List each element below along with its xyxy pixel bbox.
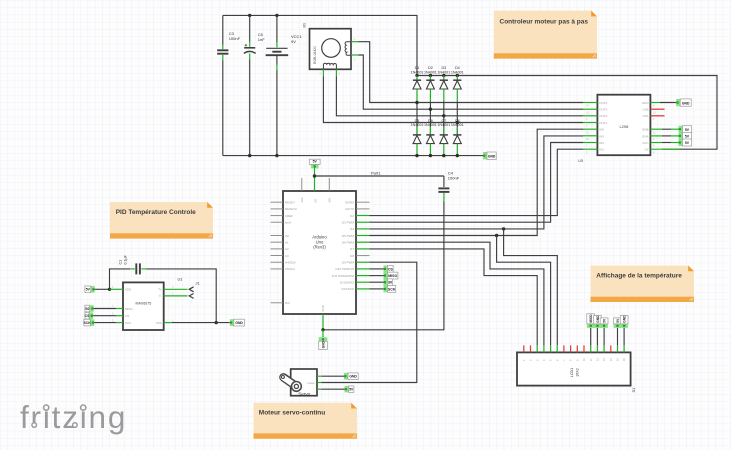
svg-text:1N4001: 1N4001 xyxy=(411,70,424,74)
junction diode column D7 on bottom rail xyxy=(442,154,445,157)
wire D4 net branch to LCD pin6 xyxy=(504,229,558,346)
svg-text:D10 PWM/SS: D10 PWM/SS xyxy=(335,267,354,271)
junction Arduino GND node xyxy=(321,328,324,331)
svg-text:pulse: pulse xyxy=(307,381,315,385)
svg-text:RESET: RESET xyxy=(285,201,295,205)
L298 VS pin green stub xyxy=(650,148,680,150)
wire C3 top lead xyxy=(222,15,224,44)
junction 5V node above Arduino xyxy=(313,174,316,177)
svg-text:Affichage de la température: Affichage de la température xyxy=(596,273,682,280)
wire Arduino GND pin down (green) xyxy=(322,314,324,330)
svg-text:T+: T+ xyxy=(158,288,162,292)
node 5V label at L298 ENA xyxy=(679,132,683,139)
diode D8 green stub bottom xyxy=(456,144,458,156)
svg-text:VIN: VIN xyxy=(328,198,332,203)
svg-text:5V: 5V xyxy=(685,128,690,132)
svg-text:CSA: CSA xyxy=(642,114,648,118)
stepper pin A green stub xyxy=(351,41,358,43)
microcontroller Part1 Arduino Uno body xyxy=(283,191,356,314)
wire diode column D3-D7 xyxy=(443,102,445,135)
MAX6675 SCK pin green stub xyxy=(116,322,123,324)
wire LCD pin11 to MISO label xyxy=(590,328,592,346)
wire servo 5V to label xyxy=(322,388,345,390)
node S0 label at Arduino D12 xyxy=(384,279,388,286)
svg-text:T-: T- xyxy=(159,294,162,298)
svg-text:U5: U5 xyxy=(578,158,584,163)
svg-text:LCD1: LCD1 xyxy=(570,368,574,377)
svg-text:ioref: ioref xyxy=(285,221,291,225)
wire CS label to CS pin xyxy=(93,315,116,317)
capacitor C3 green stub bottom xyxy=(222,55,224,61)
diode D5 green stub bottom xyxy=(416,144,418,156)
svg-text:D4: D4 xyxy=(350,227,354,231)
svg-text:IN1: IN1 xyxy=(599,148,604,152)
svg-text:GND: GND xyxy=(642,101,650,105)
svg-text:1N4001: 1N4001 xyxy=(424,70,437,74)
junction VCC1 top rail xyxy=(275,14,278,17)
wire 5V label to Arduino 5V pin (green) xyxy=(314,166,316,191)
svg-text:5V: 5V xyxy=(685,135,690,139)
wire C3 bottom lead xyxy=(222,61,224,156)
svg-text:VDD: VDD xyxy=(125,288,132,292)
svg-text:D8: D8 xyxy=(350,254,354,258)
svg-text:S1: S1 xyxy=(631,387,636,393)
diode D4 green stub bottom xyxy=(456,89,458,102)
stepper pin C green stub xyxy=(335,69,337,76)
wire C4 to GND junction xyxy=(323,202,444,330)
diode D1 1N4001 symbol xyxy=(413,79,421,81)
svg-text:A0: A0 xyxy=(285,234,289,238)
L298 CSB unconnected red stub xyxy=(650,108,664,110)
servo pulse pin green stub xyxy=(317,382,322,384)
servo 5V pin green stub xyxy=(317,388,322,390)
wire VDD node up to C1 xyxy=(110,269,131,289)
diode D2 1N4001 symbol xyxy=(426,79,434,81)
LCD 16 pins with pin numbers xyxy=(523,345,525,352)
MAX6675 VSS pin green stub xyxy=(164,322,172,324)
wire diode column D4-D8 xyxy=(456,102,458,135)
svg-text:3V3: 3V3 xyxy=(300,197,304,202)
L298 ENA wire green end xyxy=(671,135,679,137)
junction diode column D1 on OUT wire xyxy=(415,101,418,104)
diode D4 1N4001 symbol xyxy=(453,79,461,81)
wire C1 to GND node xyxy=(147,269,216,323)
L298 ENA pin green stub xyxy=(650,135,662,137)
svg-text:CSB: CSB xyxy=(642,108,648,112)
svg-text:9V: 9V xyxy=(291,39,296,44)
junction MAX6675 VSS / GND node xyxy=(215,321,218,324)
svg-text:0.1µF: 0.1µF xyxy=(123,254,127,264)
capacitor C5 green stub top xyxy=(249,42,251,47)
svg-text:C1: C1 xyxy=(119,260,123,265)
junction diode column D3 on top bus xyxy=(442,74,445,77)
svg-text:D9 PWM: D9 PWM xyxy=(342,261,355,265)
junction diode column D6 on bottom rail xyxy=(429,154,432,157)
node GND label above LCD pin12 xyxy=(594,324,602,328)
svg-text:1N4001: 1N4001 xyxy=(437,70,450,74)
svg-text:IN4: IN4 xyxy=(599,128,604,132)
wire C4 top lead xyxy=(443,176,445,187)
wire C5 top lead xyxy=(249,15,251,41)
svg-text:A4/SDA: A4/SDA xyxy=(285,261,296,265)
wire diode column D1-D5 xyxy=(416,102,418,135)
svg-text:1N4001: 1N4001 xyxy=(424,123,437,127)
svg-text:SCK: SCK xyxy=(84,321,92,325)
diode D6 green stub bottom xyxy=(429,144,431,156)
svg-text:GND: GND xyxy=(623,315,627,323)
diode D7 1N4001 symbol xyxy=(440,134,448,136)
svg-text:D5 PWM: D5 PWM xyxy=(342,234,355,238)
diode D6 green stub top xyxy=(429,127,431,135)
node GND label right of L298 xyxy=(676,99,680,106)
capacitor C3 plates xyxy=(217,49,228,51)
wire LCD pin15 to 5V label xyxy=(617,328,619,346)
wire Arduino D3 to L298 IN2 xyxy=(370,143,584,223)
junction C5 bottom rail xyxy=(248,154,251,157)
wire Arduino D12 to S0 label xyxy=(370,281,384,283)
svg-text:(Rev3): (Rev3) xyxy=(313,245,326,250)
junction diode column D2 on OUT wire xyxy=(429,108,432,111)
node 5V label at L298 VCC xyxy=(679,139,683,146)
svg-text:A5/SCL: A5/SCL xyxy=(285,267,296,271)
svg-text:GND: GND xyxy=(235,321,243,325)
L298 ENB pin green stub xyxy=(650,128,662,130)
junction diode column D4 on top bus xyxy=(456,74,459,77)
diode D3 1N4001 symbol xyxy=(440,79,448,81)
junction MAX6675 VDD / C1 node xyxy=(108,288,111,291)
wire Arduino D7 to LCD pin3 xyxy=(370,249,538,346)
MAX6675 VDD pin green stub xyxy=(110,288,124,290)
stepper motor M1 ROB-08420 body xyxy=(310,29,352,70)
svg-text:VS: VS xyxy=(644,148,648,152)
MAX6675 T+ wire green xyxy=(164,288,188,290)
Arduino left pins RESET RESET2 AREF ioref A0-A5 N/C xyxy=(271,201,284,203)
L298 VCC pin green stub xyxy=(650,142,662,144)
wire L298 ENA to 5V label xyxy=(662,135,671,137)
diode D3 green stub bottom xyxy=(443,89,445,102)
svg-text:D7: D7 xyxy=(350,247,354,251)
svg-text:GND: GND xyxy=(596,315,600,323)
wire 5V label to VDD junction xyxy=(95,288,110,290)
svg-text:1N4001: 1N4001 xyxy=(411,123,424,127)
wire L298 ENB to 5V label xyxy=(662,128,671,130)
svg-text:SCK: SCK xyxy=(388,287,396,291)
diode D2 green stub bottom xyxy=(429,89,431,102)
svg-text:GND: GND xyxy=(321,340,325,348)
note PID Temperature Controle xyxy=(110,202,213,239)
thermocouple J1 contacts xyxy=(189,287,193,292)
svg-text:MISO: MISO xyxy=(388,274,397,278)
svg-text:IN3: IN3 xyxy=(599,134,604,138)
svg-text:D13/SCK: D13/SCK xyxy=(341,287,354,291)
node 5V label above LCD pin15 xyxy=(614,324,622,328)
svg-text:A1: A1 xyxy=(285,241,289,245)
node 5V label at MAX6675 VDD xyxy=(91,286,95,293)
wire VSS to GND label xyxy=(172,322,230,324)
note Controleur moteur pas a pas xyxy=(494,11,597,59)
node 5V label at L298 ENB xyxy=(679,126,683,133)
node SCK label at Arduino D13 xyxy=(384,286,388,293)
wire L298 VCC to 5V label xyxy=(662,142,671,144)
junction C5 top rail xyxy=(248,14,251,17)
diode D7 green stub top xyxy=(443,127,445,135)
wire bottom GND rail xyxy=(223,155,484,157)
stepper pin D green stub xyxy=(322,69,324,76)
wire +9V diode top bus to L298 VS xyxy=(417,76,717,150)
svg-text:D11 PWM/MOSI: D11 PWM/MOSI xyxy=(332,274,354,278)
svg-text:GND: GND xyxy=(682,101,690,105)
junction diode column D3 on OUT wire xyxy=(442,114,445,117)
svg-text:OUT1: OUT1 xyxy=(599,121,607,125)
svg-text:D12/MISO: D12/MISO xyxy=(340,281,355,285)
svg-text:IN2: IN2 xyxy=(599,141,604,145)
note Moteur servo-continu xyxy=(254,403,358,439)
node GND label at MAX6675 VSS xyxy=(230,319,234,326)
diode D5 1N4001 symbol xyxy=(413,134,421,136)
wire Arduino D6 to LCD pin4 xyxy=(370,242,544,345)
svg-text:D3 PWM: D3 PWM xyxy=(342,221,355,225)
svg-text:100nF: 100nF xyxy=(448,175,460,180)
battery VCC1 9V symbol xyxy=(266,47,287,49)
wire S0 label to MISO pin xyxy=(94,308,116,310)
wire D5 net branch to LCD pin5 xyxy=(497,236,551,346)
svg-text:GND: GND xyxy=(488,155,496,159)
wire diode column D2-D6 xyxy=(429,102,431,135)
node GND label below Arduino (rotated) xyxy=(319,337,328,341)
svg-text:PID Température Controle: PID Température Controle xyxy=(116,209,196,216)
battery VCC1 green stub top xyxy=(276,42,278,47)
svg-text:VSS: VSS xyxy=(156,321,162,325)
node S0 label at MAX6675 MISO xyxy=(90,305,94,312)
svg-text:D1/TX: D1/TX xyxy=(345,207,354,211)
svg-text:D0/RX: D0/RX xyxy=(345,201,354,205)
wire Arduino D4 to L298 IN3 xyxy=(370,136,584,229)
stepper pin B green stub xyxy=(351,54,358,56)
junction VCC1 bottom rail xyxy=(275,154,278,157)
svg-text:MISO: MISO xyxy=(589,314,593,323)
wire servo GND to label xyxy=(322,375,345,377)
node CS label at MAX6675 CS xyxy=(89,312,93,319)
svg-text:Controleur moteur pas à pas: Controleur moteur pas à pas xyxy=(500,19,589,26)
node CS label at Arduino D10 xyxy=(384,266,388,273)
capacitor C5 plates (polarized) xyxy=(244,47,255,49)
node MISO label at Arduino D11 xyxy=(384,272,388,279)
svg-text:ENA: ENA xyxy=(642,134,648,138)
op-chip U5 L298 body xyxy=(597,95,650,156)
MAX6675 CS pin green stub xyxy=(116,315,123,317)
svg-text:RESET2: RESET2 xyxy=(285,207,297,211)
servo horn icon xyxy=(284,377,296,386)
node MISO label above LCD pin11 xyxy=(587,324,595,328)
svg-text:CS: CS xyxy=(388,267,394,271)
L298 CSA unconnected red stub xyxy=(650,115,664,117)
svg-text:L298: L298 xyxy=(619,124,629,129)
svg-text:GND: GND xyxy=(349,375,357,379)
wire stepper C to L298 OUT2 xyxy=(336,76,583,116)
stepper coil right winding xyxy=(345,42,351,56)
svg-text:100nF: 100nF xyxy=(229,36,241,41)
wire LCD pin12 to GND label xyxy=(596,328,598,346)
svg-text:5V: 5V xyxy=(314,199,318,203)
diode D2 green stub top xyxy=(429,76,431,80)
svg-text:CS: CS xyxy=(85,314,90,318)
wire Arduino D13 to SCK label xyxy=(370,288,384,290)
diode D1 green stub top xyxy=(416,76,418,80)
wire C5 bottom lead xyxy=(249,60,251,156)
MAX6675 MISO pin green stub xyxy=(116,308,123,310)
svg-text:16X2: 16X2 xyxy=(576,368,580,377)
svg-text:VCC: VCC xyxy=(642,141,649,145)
wire VCC1 bottom lead xyxy=(276,70,278,156)
capacitor C1 plates xyxy=(135,263,137,274)
junction diode column D5 on bottom rail xyxy=(415,154,418,157)
wire VCC1 below symbol xyxy=(276,55,278,65)
L298 ENB wire green end xyxy=(671,128,679,130)
Arduino right pins D0-D13 xyxy=(356,201,370,203)
svg-text:D6 PWM: D6 PWM xyxy=(342,241,355,245)
stepper coil bottom winding xyxy=(323,63,336,69)
diode D8 1N4001 symbol xyxy=(453,134,461,136)
diode D6 1N4001 symbol xyxy=(426,134,434,136)
svg-text:D2: D2 xyxy=(350,214,354,218)
L298 left pins OUT4 OUT3 OUT2 OUT1 IN4 IN3 IN2 IN1 with green stubs xyxy=(583,102,597,104)
svg-text:OUT3: OUT3 xyxy=(599,108,607,112)
thermocouple IC U1 MAX6675 body xyxy=(123,282,164,330)
svg-text:Servo: Servo xyxy=(298,392,310,397)
svg-text:ROB-08420: ROB-08420 xyxy=(313,46,317,64)
svg-text:SCK: SCK xyxy=(125,321,131,325)
servo GND pin green stub xyxy=(317,375,322,377)
svg-text:1N4001: 1N4001 xyxy=(451,70,464,74)
svg-text:Moteur servo-continu: Moteur servo-continu xyxy=(259,410,325,417)
svg-text:Part1: Part1 xyxy=(371,170,381,175)
note Affichage de la temperature xyxy=(591,266,695,303)
wire GND junction to GND label (green) xyxy=(322,330,324,337)
svg-text:1nF: 1nF xyxy=(258,37,265,42)
svg-text:MISO: MISO xyxy=(125,307,133,311)
svg-text:1N4001: 1N4001 xyxy=(451,123,464,127)
svg-text:5V: 5V xyxy=(685,141,690,145)
node 5V label above LCD pin13 xyxy=(600,324,608,328)
node SCK label at MAX6675 SCK xyxy=(90,319,94,326)
node 5V label above Arduino xyxy=(311,164,319,168)
diode D3 green stub top xyxy=(443,76,445,80)
capacitor C4 plates xyxy=(438,187,449,189)
junction diode column D4 on OUT wire xyxy=(456,121,459,124)
svg-text:OUT2: OUT2 xyxy=(599,114,607,118)
wire Arduino 5V to C4 xyxy=(315,175,444,177)
svg-text:CS: CS xyxy=(125,314,129,318)
wire LCD pin13 to 5V label xyxy=(603,328,605,346)
junction D4 net branch to LCD xyxy=(502,227,505,230)
wire VCC1 top lead xyxy=(276,15,278,42)
wire stepper D to L298 OUT1 xyxy=(323,76,583,122)
node GND label at end of bottom rail xyxy=(483,152,487,159)
svg-text:5V: 5V xyxy=(86,288,91,292)
svg-text:U1: U1 xyxy=(178,277,184,282)
wire L298 GND to label xyxy=(660,102,676,104)
svg-text:OUT4: OUT4 xyxy=(599,101,607,105)
wire stepper B to L298 OUT3 xyxy=(358,55,583,109)
svg-text:N/C: N/C xyxy=(285,301,291,305)
junction D5 net branch to LCD xyxy=(495,234,498,237)
display S1 LCD body xyxy=(517,352,631,385)
svg-text:GND: GND xyxy=(321,305,325,311)
svg-text:ENB: ENB xyxy=(642,128,648,132)
capacitor C1 green stub right xyxy=(141,268,147,270)
wire Arduino D5 to L298 IN4 xyxy=(370,129,584,235)
L298 GND pin green stub xyxy=(650,102,660,104)
Arduino top pins 3V3 5V VIN xyxy=(301,178,303,191)
motor Servo body xyxy=(291,369,317,396)
L298 VCC wire green end xyxy=(671,142,679,144)
diode D7 green stub bottom xyxy=(443,144,445,156)
wire Arduino D10 to CS label xyxy=(370,268,384,270)
node GND label above LCD pin16 xyxy=(620,324,628,328)
svg-text:1N4001: 1N4001 xyxy=(437,123,450,127)
junction diode column D1 on top bus xyxy=(415,74,418,77)
diode D8 green stub top xyxy=(456,127,458,135)
capacitor C3 green stub top xyxy=(222,45,224,50)
svg-text:fritzing: fritzing xyxy=(20,399,127,435)
wire +9V top rail from C3 to diode bus xyxy=(223,15,417,75)
diode D5 green stub top xyxy=(416,127,418,135)
svg-text:A2: A2 xyxy=(285,247,289,251)
node 5V label at servo xyxy=(345,386,349,392)
MAX6675 T- wire green xyxy=(164,295,188,297)
svg-text:S0: S0 xyxy=(85,307,89,311)
diode D4 green stub top xyxy=(456,76,458,80)
wire SCK label to SCK pin xyxy=(94,322,116,324)
capacitor C1 green stub left xyxy=(130,268,135,270)
wire Arduino D9 to servo pulse xyxy=(322,262,417,382)
wire Arduino D11 to MISO label xyxy=(370,275,384,277)
svg-text:5V: 5V xyxy=(349,388,354,392)
junction diode column D2 on top bus xyxy=(429,74,432,77)
capacitor C5 green stub bottom xyxy=(249,53,251,59)
wire Arduino D2 to L298 IN1 xyxy=(370,149,584,215)
svg-text:M1: M1 xyxy=(303,23,307,28)
svg-text:5V: 5V xyxy=(313,160,318,164)
svg-text:A3: A3 xyxy=(285,254,289,258)
wire LCD pin16 to GND label xyxy=(623,328,625,346)
svg-text:AREF: AREF xyxy=(285,214,293,218)
svg-text:S0: S0 xyxy=(388,281,392,285)
battery VCC1 green stub bottom xyxy=(276,65,278,70)
node GND label at servo xyxy=(344,373,348,380)
junction diode column D8 on bottom rail xyxy=(456,154,459,157)
capacitor C4 green stub bottom xyxy=(443,193,445,202)
diode D1 green stub bottom xyxy=(416,89,418,102)
wire stepper A to L298 OUT4 xyxy=(358,42,583,103)
svg-text:MAX6675: MAX6675 xyxy=(136,301,152,305)
